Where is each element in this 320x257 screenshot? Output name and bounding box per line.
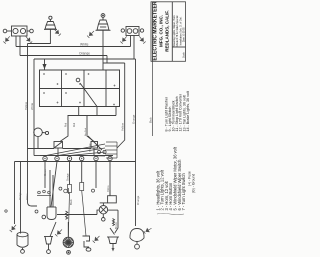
svg-text:Green: Green bbox=[44, 169, 47, 176]
svg-text:Yellow: Yellow bbox=[121, 122, 125, 131]
svg-text:Orange: Orange bbox=[19, 192, 22, 200]
svg-text:Red: Red bbox=[74, 122, 76, 127]
svg-text:Brn.Red: Brn.Red bbox=[84, 127, 87, 136]
svg-text:Yellow: Yellow bbox=[24, 101, 28, 110]
svg-text:Date 10-25-55: Date 10-25-55 bbox=[183, 27, 186, 42]
svg-text:White: White bbox=[30, 102, 34, 110]
svg-text:Black: Black bbox=[150, 117, 152, 123]
svg-text:Yellow: Yellow bbox=[108, 185, 110, 192]
svg-text:MFG. CO., INC.: MFG. CO., INC. bbox=[159, 15, 164, 47]
svg-text:Brown: Brown bbox=[115, 222, 118, 229]
svg-text:7 - Turn Light Switch: 7 - Turn Light Switch bbox=[181, 172, 186, 210]
svg-text:Scale: Scale bbox=[184, 52, 186, 58]
svg-text:REDLANDS, CALIF.: REDLANDS, CALIF. bbox=[165, 10, 170, 52]
svg-text:Orange: Orange bbox=[79, 51, 90, 55]
svg-text:Red: Red bbox=[66, 122, 68, 127]
svg-text:Orange: Orange bbox=[66, 173, 69, 181]
svg-text:Orange: Orange bbox=[131, 114, 135, 124]
svg-text:Installation Sch. D. of Del.: Installation Sch. D. of Del. bbox=[179, 16, 182, 45]
svg-text:White: White bbox=[80, 42, 89, 46]
svg-text:Orange: Orange bbox=[136, 195, 140, 205]
svg-text:(G) - Ground: (G) - Ground bbox=[192, 174, 196, 193]
svg-text:Black: Black bbox=[71, 199, 73, 205]
svg-text:Yellow: Yellow bbox=[27, 193, 29, 200]
svg-text:14 - Brake Lights, 36 volt: 14 - Brake Lights, 36 volt bbox=[186, 91, 190, 131]
